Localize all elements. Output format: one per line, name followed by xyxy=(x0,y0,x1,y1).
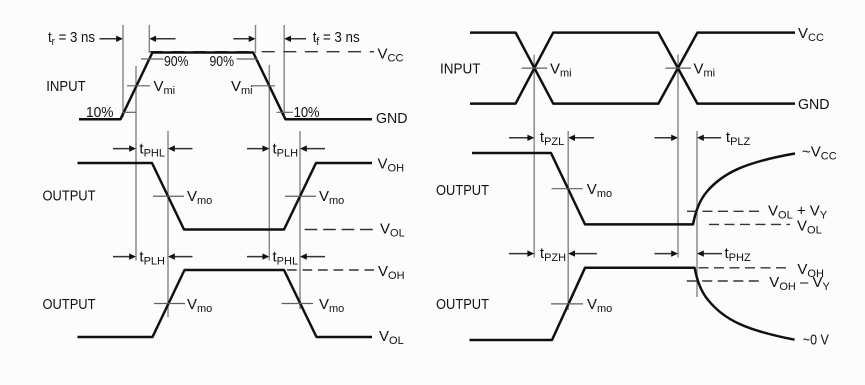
Vmo tick output1 fall xyxy=(153,195,184,197)
dashed VOH reference line (second output) xyxy=(287,269,374,271)
guide line right Vmi crossing 1 xyxy=(533,55,535,258)
tPLH arrow left xyxy=(247,145,269,151)
Vmo tick right output2 xyxy=(551,303,583,305)
tf arrow left xyxy=(233,36,255,42)
guide line 90% fall (tf start) xyxy=(255,25,257,53)
input waveform right line B (starts low) xyxy=(470,33,795,104)
svg-text:VOH​ – VY​: VOH​ – VY​ xyxy=(769,274,830,293)
Vmo tick right output1 xyxy=(552,188,583,190)
guide line right Vmi crossing 2 xyxy=(677,55,679,258)
svg-text:OUTPUT: OUTPUT xyxy=(436,296,489,313)
tPZL arrow right xyxy=(568,135,594,141)
Vmo tick output2 rise xyxy=(154,303,185,305)
10% tick falling xyxy=(277,111,294,113)
guide line Vmi falling-edge crossing xyxy=(268,65,270,261)
tPHL arrow left xyxy=(113,145,136,151)
svg-text:OUTPUT: OUTPUT xyxy=(43,188,96,205)
guide line Vmo second-transition crossing xyxy=(299,131,301,309)
svg-text:10%: 10% xyxy=(86,104,114,121)
output waveform 1 left (high-low-high) xyxy=(78,163,373,230)
tr arrow left xyxy=(100,36,124,42)
tf arrow right xyxy=(284,36,306,42)
tPLZ arrow left xyxy=(655,135,679,141)
90% tick rising xyxy=(141,58,164,60)
tPLH arrow right xyxy=(300,145,325,151)
tPHZ arrow right xyxy=(697,250,722,256)
svg-text:GND: GND xyxy=(798,96,830,113)
svg-text:INPUT: INPUT xyxy=(440,60,481,77)
guide line 90% rise (tr end) xyxy=(148,25,150,53)
dashed VCC reference line xyxy=(262,51,374,53)
Vmo tick output1 rise xyxy=(285,195,316,197)
guide line right VY departure xyxy=(696,131,698,297)
guide line 10% fall (tf end) xyxy=(283,25,285,118)
tPHZ arrow left xyxy=(655,250,679,256)
input waveform left xyxy=(79,53,372,120)
svg-text:90%: 90% xyxy=(210,53,235,70)
dashed VOL reference line (first output) xyxy=(305,229,374,231)
Vmi tick crossing 2 xyxy=(666,67,692,69)
svg-text:10%: 10% xyxy=(294,104,320,121)
10% tick rising xyxy=(123,111,137,113)
svg-text:~0 V: ~0 V xyxy=(803,331,829,348)
tPLH arrow right row2 xyxy=(168,253,193,259)
svg-text:OUTPUT: OUTPUT xyxy=(436,182,489,199)
svg-text:GND: GND xyxy=(376,110,408,127)
tPHL arrow right xyxy=(168,145,193,151)
input waveform right line A (starts high) xyxy=(470,33,795,104)
guide line Vmo first-transition crossing xyxy=(167,131,169,317)
svg-text:90%: 90% xyxy=(164,53,189,70)
tr arrow right xyxy=(149,36,175,42)
svg-text:tf​ = 3 ns: tf​ = 3 ns xyxy=(313,29,360,48)
Vmi tick falling xyxy=(251,85,275,87)
tPZH arrow right xyxy=(568,250,597,256)
guide line right Vmo crossing 1 xyxy=(567,131,569,310)
dashed VOL reference right xyxy=(709,223,790,225)
dashed VOH reference right xyxy=(699,267,791,269)
svg-text:INPUT: INPUT xyxy=(46,78,85,95)
tPHL arrow right row2 xyxy=(300,253,325,259)
tPZL arrow left xyxy=(509,135,534,141)
output waveform right 1 with rise to ~VCC xyxy=(472,153,795,224)
90% tick falling xyxy=(237,58,258,60)
Vmo tick output2 fall xyxy=(282,303,314,305)
svg-text:OUTPUT: OUTPUT xyxy=(43,296,96,313)
tPLH arrow left row2 xyxy=(113,253,136,259)
tPZH arrow left xyxy=(509,250,534,256)
Vmi tick crossing 1 xyxy=(522,67,548,69)
dashed VOH - VY reference xyxy=(687,280,763,282)
tPLZ arrow right xyxy=(697,135,721,141)
svg-text:tr​ = 3 ns: tr​ = 3 ns xyxy=(48,29,95,48)
output waveform right 2 with decay to ~0V xyxy=(470,268,795,340)
guide line 10% rise (tr start) xyxy=(122,25,124,117)
guide line Vmi rising-edge crossing xyxy=(135,66,137,261)
dashed VOL + VY reference xyxy=(687,210,764,212)
tPHL arrow left row2 xyxy=(247,253,269,259)
output waveform 2 left (low-high-low) xyxy=(78,270,373,337)
Vmi tick rising xyxy=(127,85,150,87)
